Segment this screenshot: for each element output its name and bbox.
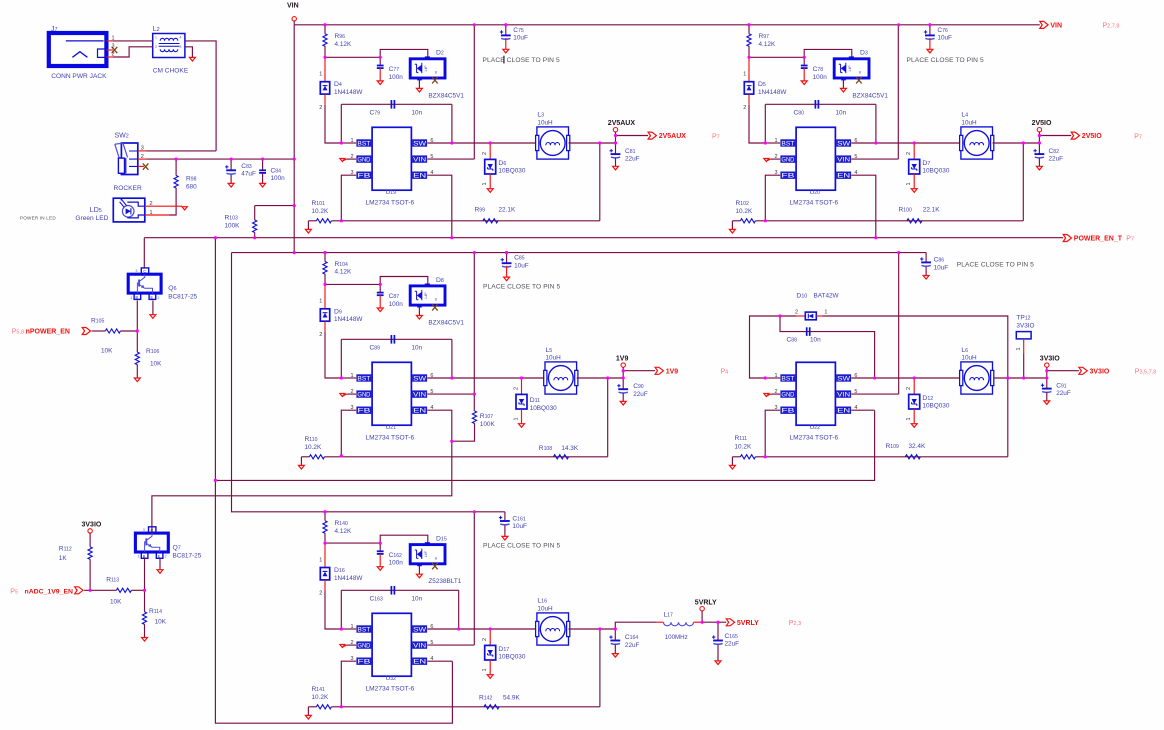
svg-text:1: 1 bbox=[150, 210, 153, 216]
svg-text:D8: D8 bbox=[436, 277, 444, 284]
svg-text:1: 1 bbox=[319, 557, 322, 563]
svg-text:2: 2 bbox=[155, 45, 157, 49]
svg-text:4.12K: 4.12K bbox=[759, 41, 776, 48]
svg-text:VIN: VIN bbox=[413, 391, 426, 398]
svg-text:10K: 10K bbox=[150, 361, 162, 368]
svg-text:R96: R96 bbox=[335, 33, 346, 40]
svg-text:R142: R142 bbox=[479, 694, 492, 701]
svg-text:R114: R114 bbox=[149, 608, 162, 615]
svg-text:10BQ030: 10BQ030 bbox=[498, 654, 525, 661]
svg-text:C91: C91 bbox=[1056, 382, 1067, 389]
svg-text:C165: C165 bbox=[725, 633, 738, 640]
svg-text:10uF: 10uF bbox=[512, 523, 527, 530]
svg-text:g: g bbox=[435, 70, 437, 74]
svg-text:1: 1 bbox=[155, 36, 157, 40]
svg-text:10BQ030: 10BQ030 bbox=[922, 168, 949, 175]
svg-text:EN: EN bbox=[413, 173, 426, 180]
svg-text:100n: 100n bbox=[389, 74, 404, 81]
svg-text:R97: R97 bbox=[759, 33, 770, 40]
svg-text:C84: C84 bbox=[271, 167, 282, 174]
svg-text:1N4148W: 1N4148W bbox=[334, 89, 363, 96]
svg-text:100n: 100n bbox=[271, 175, 286, 182]
svg-text:C88: C88 bbox=[787, 336, 798, 343]
svg-text:2: 2 bbox=[319, 105, 322, 111]
svg-text:4: 4 bbox=[180, 36, 182, 40]
svg-text:U32: U32 bbox=[386, 675, 397, 682]
svg-text:1: 1 bbox=[775, 373, 778, 379]
svg-text:FB: FB bbox=[781, 408, 794, 415]
svg-text:C85: C85 bbox=[514, 255, 525, 262]
svg-text:3: 3 bbox=[141, 146, 144, 152]
svg-text:U20: U20 bbox=[810, 189, 821, 196]
svg-text:5VRLY: 5VRLY bbox=[737, 620, 759, 627]
svg-text:Green LED: Green LED bbox=[75, 215, 108, 222]
svg-text:BAT42W: BAT42W bbox=[814, 293, 840, 300]
svg-text:EN: EN bbox=[413, 408, 426, 415]
svg-text:2: 2 bbox=[906, 387, 912, 390]
svg-text:R111: R111 bbox=[735, 435, 748, 442]
svg-text:10.2K: 10.2K bbox=[735, 444, 752, 451]
svg-text:10uH: 10uH bbox=[961, 355, 977, 362]
svg-text:100MHz: 100MHz bbox=[665, 634, 688, 641]
svg-text:GND: GND bbox=[357, 391, 371, 398]
svg-text:P5: P5 bbox=[10, 588, 18, 595]
svg-text:P2,3: P2,3 bbox=[789, 620, 801, 627]
svg-text:GND: GND bbox=[357, 642, 371, 649]
svg-text:U19: U19 bbox=[386, 189, 397, 196]
svg-text:14.3K: 14.3K bbox=[561, 445, 578, 452]
svg-text:2: 2 bbox=[157, 296, 159, 300]
svg-text:FB: FB bbox=[781, 173, 794, 180]
svg-text:FB: FB bbox=[357, 659, 370, 666]
svg-text:C90: C90 bbox=[633, 383, 644, 390]
svg-text:3V3IO: 3V3IO bbox=[1090, 368, 1110, 375]
svg-text:10n: 10n bbox=[836, 110, 847, 117]
svg-text:10.2K: 10.2K bbox=[312, 694, 329, 701]
svg-text:R141: R141 bbox=[312, 686, 325, 693]
svg-text:D11: D11 bbox=[530, 397, 540, 404]
svg-text:1N4148W: 1N4148W bbox=[758, 89, 787, 96]
svg-text:VIN: VIN bbox=[413, 642, 426, 649]
svg-text:100n: 100n bbox=[389, 560, 404, 567]
svg-text:LM2734 TSOT-6: LM2734 TSOT-6 bbox=[366, 435, 415, 442]
svg-text:PLACE CLOSE TO PIN 5: PLACE CLOSE TO PIN 5 bbox=[957, 261, 1034, 268]
svg-text:D3: D3 bbox=[860, 50, 868, 57]
svg-text:EN: EN bbox=[837, 173, 850, 180]
svg-text:C162: C162 bbox=[389, 552, 402, 559]
svg-text:D9: D9 bbox=[334, 308, 342, 315]
svg-text:1: 1 bbox=[482, 668, 488, 671]
svg-text:D6: D6 bbox=[498, 160, 506, 167]
svg-text:g: g bbox=[435, 556, 437, 560]
svg-text:BC817-25: BC817-25 bbox=[168, 293, 197, 300]
svg-text:GND: GND bbox=[781, 156, 795, 163]
svg-text:1V9: 1V9 bbox=[616, 356, 629, 363]
svg-text:D2: D2 bbox=[436, 50, 444, 57]
svg-text:10.2K: 10.2K bbox=[305, 444, 322, 451]
svg-text:P3,5,7,8: P3,5,7,8 bbox=[1135, 369, 1157, 376]
svg-text:R98: R98 bbox=[186, 176, 197, 183]
svg-text:VIN: VIN bbox=[413, 156, 426, 163]
svg-text:32.4K: 32.4K bbox=[909, 443, 926, 450]
svg-text:CONN PWR JACK: CONN PWR JACK bbox=[51, 73, 107, 80]
svg-text:1: 1 bbox=[824, 309, 827, 315]
svg-text:D16: D16 bbox=[334, 567, 345, 574]
svg-text:4.12K: 4.12K bbox=[335, 269, 352, 276]
svg-text:GND: GND bbox=[357, 156, 371, 163]
svg-text:10uH: 10uH bbox=[961, 119, 977, 126]
svg-text:BST: BST bbox=[357, 375, 370, 382]
svg-text:1: 1 bbox=[482, 182, 488, 185]
svg-text:R106: R106 bbox=[146, 348, 159, 355]
svg-text:R107: R107 bbox=[480, 413, 493, 420]
svg-text:3: 3 bbox=[180, 45, 182, 49]
svg-text:LD5: LD5 bbox=[90, 207, 102, 214]
svg-text:R104: R104 bbox=[335, 261, 348, 268]
svg-text:nPOWER_EN: nPOWER_EN bbox=[26, 329, 70, 336]
svg-text:Q7: Q7 bbox=[173, 545, 181, 552]
svg-text:R99: R99 bbox=[475, 206, 486, 213]
svg-text:1: 1 bbox=[906, 182, 912, 185]
svg-text:1: 1 bbox=[743, 72, 746, 78]
svg-text:R112: R112 bbox=[59, 546, 72, 553]
svg-text:2V5IO: 2V5IO bbox=[1032, 120, 1052, 127]
svg-text:ROCKER: ROCKER bbox=[114, 185, 142, 192]
svg-text:P7: P7 bbox=[1126, 236, 1134, 243]
svg-text:C164: C164 bbox=[625, 634, 638, 641]
svg-text:EN: EN bbox=[837, 408, 850, 415]
svg-text:VIN: VIN bbox=[1050, 23, 1062, 30]
svg-text:2: 2 bbox=[482, 638, 488, 641]
svg-text:POWER_EN_T: POWER_EN_T bbox=[1074, 236, 1123, 243]
svg-text:C76: C76 bbox=[937, 27, 948, 34]
svg-text:22uF: 22uF bbox=[1056, 390, 1071, 397]
svg-text:4.12K: 4.12K bbox=[335, 528, 352, 535]
svg-text:SW: SW bbox=[413, 626, 426, 633]
svg-text:L4P: L4P bbox=[848, 65, 852, 72]
svg-text:U21: U21 bbox=[386, 424, 397, 431]
svg-text:10n: 10n bbox=[412, 345, 423, 352]
svg-text:3V3IO: 3V3IO bbox=[82, 521, 102, 528]
svg-text:2V5AUX: 2V5AUX bbox=[608, 120, 636, 127]
svg-text:BST: BST bbox=[781, 375, 794, 382]
svg-text:10.2K: 10.2K bbox=[736, 208, 753, 215]
svg-text:BZX84C5V1: BZX84C5V1 bbox=[852, 92, 888, 99]
svg-text:680: 680 bbox=[186, 183, 197, 190]
svg-text:TP12: TP12 bbox=[1016, 314, 1030, 321]
svg-text:10uH: 10uH bbox=[537, 605, 553, 612]
svg-text:BC817-25: BC817-25 bbox=[173, 553, 202, 560]
svg-text:nADC_1V9_EN: nADC_1V9_EN bbox=[25, 588, 74, 595]
svg-text:1: 1 bbox=[130, 296, 132, 300]
svg-text:2: 2 bbox=[482, 152, 488, 155]
svg-text:L17: L17 bbox=[664, 611, 674, 618]
svg-text:C81: C81 bbox=[625, 148, 636, 155]
svg-text:3: 3 bbox=[136, 269, 138, 273]
svg-text:P4: P4 bbox=[721, 369, 729, 376]
svg-text:L4P: L4P bbox=[424, 292, 428, 299]
svg-text:L4P: L4P bbox=[424, 550, 428, 557]
svg-text:Q6: Q6 bbox=[168, 285, 176, 292]
svg-text:22uF: 22uF bbox=[625, 156, 640, 163]
svg-text:1: 1 bbox=[1016, 347, 1022, 350]
svg-text:D7: D7 bbox=[922, 160, 930, 167]
svg-text:CM CHOKE: CM CHOKE bbox=[153, 68, 189, 75]
svg-text:VIN: VIN bbox=[837, 156, 850, 163]
svg-text:54.9K: 54.9K bbox=[503, 694, 520, 701]
svg-text:10BQ030: 10BQ030 bbox=[922, 403, 949, 410]
svg-text:1K: 1K bbox=[59, 555, 68, 562]
svg-text:2: 2 bbox=[141, 154, 144, 160]
svg-text:C161: C161 bbox=[512, 515, 525, 522]
svg-text:4.12K: 4.12K bbox=[335, 41, 352, 48]
svg-text:2: 2 bbox=[150, 201, 153, 207]
svg-text:10uH: 10uH bbox=[537, 119, 553, 126]
svg-text:L2: L2 bbox=[153, 26, 160, 33]
svg-text:10BQ030: 10BQ030 bbox=[498, 168, 525, 175]
svg-text:R113: R113 bbox=[106, 577, 119, 584]
svg-text:L4P: L4P bbox=[424, 65, 428, 72]
svg-text:D12: D12 bbox=[922, 395, 933, 402]
svg-text:10uH: 10uH bbox=[546, 355, 562, 362]
svg-text:L4: L4 bbox=[961, 112, 968, 119]
svg-text:2: 2 bbox=[795, 309, 798, 315]
svg-text:10n: 10n bbox=[412, 110, 423, 117]
svg-text:PLACE CLOSE TO PIN 5: PLACE CLOSE TO PIN 5 bbox=[483, 284, 560, 291]
svg-text:L3: L3 bbox=[537, 112, 544, 119]
svg-text:L5: L5 bbox=[546, 347, 553, 354]
svg-text:U22: U22 bbox=[810, 424, 821, 431]
svg-text:10uF: 10uF bbox=[937, 35, 952, 42]
svg-text:10K: 10K bbox=[155, 618, 167, 625]
svg-text:BZX84C5V1: BZX84C5V1 bbox=[428, 92, 464, 99]
svg-text:10uF: 10uF bbox=[513, 35, 528, 42]
svg-text:2V5IO: 2V5IO bbox=[1082, 133, 1102, 140]
svg-text:R140: R140 bbox=[335, 520, 348, 527]
svg-text:VIN: VIN bbox=[287, 3, 299, 10]
svg-text:100n: 100n bbox=[389, 301, 404, 308]
svg-text:10n: 10n bbox=[412, 596, 423, 603]
svg-text:P5,8: P5,8 bbox=[12, 329, 24, 336]
svg-text:10.2K: 10.2K bbox=[312, 208, 329, 215]
svg-text:g: g bbox=[435, 297, 437, 301]
svg-text:2V5AUX: 2V5AUX bbox=[659, 133, 687, 140]
svg-text:10K: 10K bbox=[101, 348, 113, 355]
svg-text:5VRLY: 5VRLY bbox=[695, 599, 717, 606]
svg-text:C86: C86 bbox=[934, 257, 945, 264]
svg-text:LM2734 TSOT-6: LM2734 TSOT-6 bbox=[790, 435, 839, 442]
svg-text:47uF: 47uF bbox=[241, 171, 256, 178]
svg-text:LM2734 TSOT-6: LM2734 TSOT-6 bbox=[790, 200, 839, 207]
svg-text:C79: C79 bbox=[370, 110, 381, 117]
svg-text:D17: D17 bbox=[498, 646, 509, 653]
svg-text:2: 2 bbox=[319, 591, 322, 597]
svg-text:FB: FB bbox=[357, 408, 370, 415]
svg-text:C77: C77 bbox=[389, 66, 400, 73]
svg-text:22uF: 22uF bbox=[725, 641, 740, 648]
svg-text:R105: R105 bbox=[91, 317, 104, 324]
svg-text:2: 2 bbox=[319, 332, 322, 338]
svg-text:1N4148W: 1N4148W bbox=[334, 575, 363, 582]
svg-text:C78: C78 bbox=[813, 66, 824, 73]
svg-text:D5: D5 bbox=[758, 81, 766, 88]
svg-text:22.1K: 22.1K bbox=[499, 206, 516, 213]
svg-text:100K: 100K bbox=[225, 223, 241, 230]
svg-text:2: 2 bbox=[513, 387, 519, 390]
svg-text:VIN: VIN bbox=[837, 391, 850, 398]
svg-text:GND: GND bbox=[781, 391, 795, 398]
svg-text:3V3IO: 3V3IO bbox=[1040, 356, 1060, 363]
svg-text:22.1K: 22.1K bbox=[923, 206, 940, 213]
svg-text:1: 1 bbox=[138, 555, 140, 559]
svg-text:2: 2 bbox=[906, 152, 912, 155]
svg-text:R101: R101 bbox=[312, 200, 325, 207]
svg-text:POWER IN LED: POWER IN LED bbox=[20, 216, 56, 221]
svg-text:22uF: 22uF bbox=[633, 391, 648, 398]
svg-text:100n: 100n bbox=[813, 74, 828, 81]
svg-text:FB: FB bbox=[357, 173, 370, 180]
svg-text:22uF: 22uF bbox=[1049, 156, 1064, 163]
svg-text:100K: 100K bbox=[480, 421, 496, 428]
svg-text:PLACE CLOSE TO PIN 5: PLACE CLOSE TO PIN 5 bbox=[483, 542, 560, 549]
svg-text:LM2734 TSOT-6: LM2734 TSOT-6 bbox=[366, 686, 415, 693]
svg-text:1: 1 bbox=[906, 417, 912, 420]
svg-text:C82: C82 bbox=[1049, 148, 1060, 155]
svg-text:R109: R109 bbox=[886, 443, 899, 450]
svg-text:10n: 10n bbox=[810, 336, 821, 343]
svg-text:R102: R102 bbox=[736, 200, 749, 207]
svg-text:C80: C80 bbox=[794, 110, 805, 117]
svg-text:1: 1 bbox=[319, 72, 322, 78]
svg-text:PLACE CLOSE TO PIN 5: PLACE CLOSE TO PIN 5 bbox=[483, 57, 560, 64]
svg-text:R103: R103 bbox=[225, 215, 238, 222]
svg-text:PLACE CLOSE TO PIN 5: PLACE CLOSE TO PIN 5 bbox=[907, 57, 984, 64]
svg-text:P7: P7 bbox=[712, 133, 720, 140]
svg-text:BST: BST bbox=[781, 140, 794, 147]
svg-text:D15: D15 bbox=[436, 536, 447, 543]
svg-text:10BQ030: 10BQ030 bbox=[530, 405, 557, 412]
svg-text:L16: L16 bbox=[537, 598, 547, 605]
svg-text:SW: SW bbox=[837, 375, 850, 382]
svg-text:1: 1 bbox=[513, 417, 519, 420]
svg-text:3: 3 bbox=[143, 528, 145, 532]
svg-text:BZX84C5V1: BZX84C5V1 bbox=[428, 320, 464, 327]
svg-text:C163: C163 bbox=[370, 596, 383, 603]
svg-text:R100: R100 bbox=[899, 206, 912, 213]
svg-text:1N4148W: 1N4148W bbox=[334, 316, 363, 323]
svg-text:SW2: SW2 bbox=[115, 133, 129, 140]
svg-text:BST: BST bbox=[357, 140, 370, 147]
svg-text:R110: R110 bbox=[305, 436, 318, 443]
svg-text:P2,7,8: P2,7,8 bbox=[1103, 23, 1120, 30]
svg-text:P7: P7 bbox=[1134, 133, 1142, 140]
svg-text:SW: SW bbox=[413, 375, 426, 382]
svg-text:10uF: 10uF bbox=[934, 264, 949, 271]
svg-text:L6: L6 bbox=[961, 347, 968, 354]
svg-text:g: g bbox=[859, 70, 861, 74]
svg-text:Z5238BLT1: Z5238BLT1 bbox=[428, 578, 461, 585]
svg-text:10K: 10K bbox=[110, 598, 122, 605]
svg-text:3V3IO: 3V3IO bbox=[1016, 322, 1034, 329]
svg-text:SW: SW bbox=[413, 140, 426, 147]
svg-text:D10: D10 bbox=[796, 293, 807, 300]
svg-text:3: 3 bbox=[112, 44, 115, 50]
svg-text:10uF: 10uF bbox=[514, 263, 529, 270]
svg-text:1: 1 bbox=[319, 299, 322, 305]
svg-text:C87: C87 bbox=[389, 293, 400, 300]
svg-text:R108: R108 bbox=[539, 445, 552, 452]
svg-text:C89: C89 bbox=[370, 345, 381, 352]
svg-text:LM2734 TSOT-6: LM2734 TSOT-6 bbox=[366, 200, 415, 207]
svg-text:C83: C83 bbox=[241, 163, 252, 170]
svg-text:SW: SW bbox=[837, 140, 850, 147]
svg-text:2: 2 bbox=[743, 105, 746, 111]
svg-text:2: 2 bbox=[165, 555, 167, 559]
svg-text:C75: C75 bbox=[513, 27, 524, 34]
svg-text:EN: EN bbox=[413, 659, 426, 666]
svg-text:D4: D4 bbox=[334, 81, 342, 88]
svg-text:BST: BST bbox=[357, 626, 370, 633]
svg-text:22uF: 22uF bbox=[625, 642, 640, 649]
svg-text:1V9: 1V9 bbox=[666, 368, 679, 375]
